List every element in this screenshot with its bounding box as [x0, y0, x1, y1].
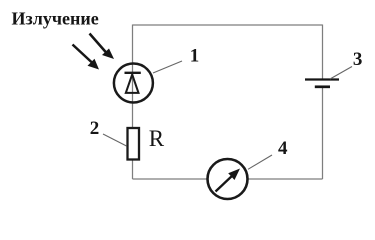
leader to label 2: [103, 134, 127, 146]
battery 3 short plate: [315, 85, 330, 88]
svg-text:Излучение: Излучение: [12, 9, 99, 29]
leader to label 4: [248, 155, 272, 169]
photodiode 1 cathode bar: [125, 72, 141, 74]
wire bottom: [133, 178, 323, 180]
battery 3 long plate: [305, 78, 339, 80]
svg-text:R: R: [149, 126, 165, 151]
photodiode 1 circle: [114, 64, 153, 103]
wire left (through photodiode down to resistor): [132, 25, 134, 129]
leader to label 3: [330, 67, 352, 80]
wire left lower (resistor to bottom): [132, 160, 134, 180]
wire top: [133, 24, 323, 26]
radiation arrow upper: [90, 34, 115, 60]
svg-text:4: 4: [278, 138, 288, 159]
wire right lower: [322, 88, 324, 180]
meter 4 circle: [208, 159, 248, 199]
svg-text:3: 3: [353, 49, 363, 70]
leader to label 1: [153, 61, 182, 73]
radiation arrow lower: [73, 45, 100, 70]
svg-text:2: 2: [90, 118, 100, 139]
resistor R (2) body: [128, 128, 140, 160]
photodiode 1 triangle: [126, 75, 139, 93]
svg-text:1: 1: [190, 46, 200, 67]
wire right upper: [322, 25, 324, 79]
meter 4 needle: [216, 169, 241, 192]
